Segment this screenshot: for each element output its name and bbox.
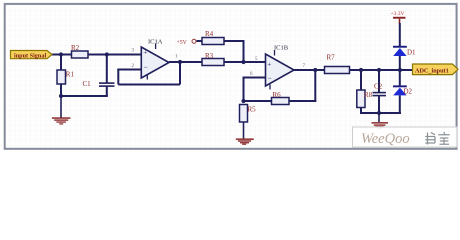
- power pin stub bottom: [146, 75, 148, 80]
- wire: feedback rail to R6: [244, 100, 272, 102]
- wire: R4 corner down to node: [243, 41, 245, 63]
- wire: pin6 down leg: [243, 78, 245, 103]
- wire: feedback right leg: [179, 62, 181, 85]
- svg-text:−: −: [268, 74, 272, 83]
- wire: bottom rail R1-C1: [60, 95, 108, 97]
- wire: ground stem right: [378, 113, 380, 122]
- svg-text:−: −: [144, 62, 148, 71]
- resistor R7: [325, 67, 350, 74]
- wire: C1 top lead: [106, 55, 108, 83]
- svg-text:R7: R7: [327, 54, 336, 62]
- resistor R1: [57, 70, 66, 84]
- wire: R7 to ADC flag: [350, 69, 414, 71]
- diode D1: [393, 46, 416, 57]
- svg-text:R6: R6: [273, 91, 282, 99]
- svg-text:C1: C1: [83, 80, 92, 88]
- wire: R8 top lead: [360, 70, 362, 91]
- wire: R1 top lead: [60, 55, 62, 71]
- op-amp U1 IC1A: [141, 39, 169, 80]
- diode D2: [393, 85, 413, 95]
- svg-text:R3: R3: [205, 52, 214, 60]
- resistor R8: [357, 90, 365, 108]
- svg-text:+: +: [143, 49, 147, 57]
- wire: R1 bottom lead: [60, 84, 62, 96]
- wire: IC1A pin2 lead: [117, 69, 141, 71]
- capacitor C2: [373, 83, 387, 97]
- wire: +3.3V to D1: [399, 23, 401, 46]
- wire: ground stem middle: [243, 122, 245, 139]
- wire: feedback left leg: [117, 70, 119, 85]
- wire: R4 to corner: [224, 40, 245, 42]
- svg-text:R8: R8: [364, 91, 373, 99]
- resistor R5: [240, 105, 248, 123]
- wire: feedback bottom: [118, 84, 180, 86]
- node: junction R3/R4/pin5: [241, 60, 245, 64]
- svg-text:D2: D2: [404, 88, 413, 96]
- wire: IC1B output to R7: [294, 69, 325, 71]
- ground (left): [52, 117, 71, 124]
- node: junction diodes: [398, 68, 402, 72]
- wire: +5V to R4: [197, 40, 203, 42]
- svg-text:input Signal: input Signal: [14, 52, 46, 59]
- wire: input rail right segment to op-amp pin 3: [88, 54, 142, 56]
- svg-text:D1: D1: [407, 49, 416, 57]
- wire: D1 to node: [399, 56, 401, 71]
- wire: R8 bottom lead: [360, 108, 362, 115]
- sheet exit flag: ADC_input1: [413, 64, 459, 75]
- wire: ground stem left: [60, 96, 62, 118]
- ground (right): [372, 122, 389, 129]
- svg-text:R1: R1: [66, 71, 75, 79]
- node: junction rail/ground: [59, 94, 63, 98]
- ground (middle): [236, 138, 254, 144]
- resistor R4: [202, 38, 224, 45]
- resistor R2: [72, 51, 89, 58]
- wire: C2 top lead: [378, 70, 380, 92]
- wire: node to D2: [399, 70, 401, 86]
- wire: feedback up leg: [314, 70, 316, 102]
- wire: C1 bottom lead: [106, 87, 108, 96]
- capacitor C1: [83, 80, 115, 88]
- node: junction R5/R6: [241, 99, 245, 103]
- wire: C2 bottom lead: [378, 96, 380, 113]
- power pin stub top: [155, 44, 157, 50]
- wire: IC1A output to R3: [169, 61, 202, 63]
- wire: D2 to bottom rail: [399, 95, 401, 114]
- svg-text:C2: C2: [374, 83, 383, 91]
- svg-text:+3.3V: +3.3V: [391, 11, 405, 17]
- svg-text:IC1B: IC1B: [274, 44, 289, 51]
- node: junction output/feedback: [178, 60, 182, 64]
- watermark WeeQoo: [353, 127, 458, 147]
- op-amp U2 IC1B: [266, 44, 295, 89]
- sheet entry flag: input Signal: [11, 51, 53, 60]
- wire: IC1B pin6 lead: [243, 77, 266, 79]
- svg-text:ADC_input1: ADC_input1: [415, 68, 449, 75]
- svg-text:R2: R2: [71, 44, 80, 52]
- wire: R3 to IC1B pin 5: [224, 61, 266, 63]
- node: junction input/R1: [59, 52, 63, 56]
- node: junction C2: [377, 68, 381, 72]
- power pin stub top: [274, 50, 276, 56]
- node: junction R8: [359, 68, 363, 72]
- power port +3.3V: [391, 11, 406, 24]
- node: junction input/C1: [105, 52, 109, 56]
- svg-text:+5V: +5V: [177, 40, 188, 46]
- wire: bottom rail right: [360, 112, 401, 114]
- sheet border frame: [5, 4, 457, 149]
- resistor R3: [202, 59, 224, 66]
- node: junction output7/feedback: [313, 68, 317, 72]
- svg-text:R4: R4: [205, 30, 214, 38]
- node: junction rail/ground right: [377, 111, 381, 115]
- svg-text:WeeQoo: WeeQoo: [361, 131, 410, 147]
- power pin stub bottom: [269, 85, 271, 90]
- power port +5V: [177, 39, 197, 46]
- wire: input rail left segment: [51, 54, 72, 56]
- svg-text:R5: R5: [248, 106, 257, 114]
- sheet background grid: [6, 5, 456, 148]
- wire: R6 to up leg: [289, 100, 316, 102]
- svg-text:+: +: [267, 60, 271, 68]
- resistor R6: [272, 98, 290, 105]
